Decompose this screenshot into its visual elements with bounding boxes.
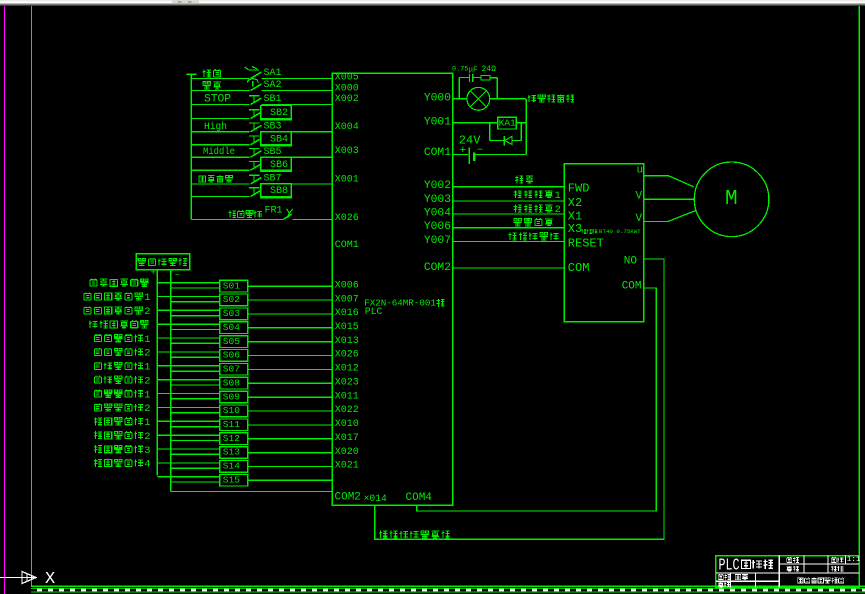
- svg-text:X000: X000: [335, 84, 359, 95]
- wire V to motor: [644, 198, 695, 200]
- sensor S12 output wire: [248, 438, 333, 440]
- svg-text:X: X: [45, 570, 55, 589]
- sensor S04 output wire: [248, 327, 333, 329]
- svg-text:1: 1: [144, 334, 150, 346]
- sensor S08 - wire: [171, 384, 220, 386]
- wire U to motor: [644, 176, 694, 187]
- title school 黑龙江工程学院: [798, 578, 803, 583]
- svg-text:SA1: SA1: [264, 68, 282, 79]
- capacitor C1 0.75uF: [459, 77, 469, 79]
- battery 24V: [468, 147, 470, 164]
- svg-text:Y002: Y002: [424, 180, 451, 192]
- svg-text:2: 2: [555, 204, 561, 216]
- sensor block S08: [220, 377, 248, 389]
- sensor S15 - wire: [171, 481, 220, 483]
- sensor label 防撞传感器2: [94, 403, 101, 411]
- frame left border: [31, 6, 33, 586]
- wire W to motor: [644, 211, 696, 222]
- svg-text:2: 2: [144, 348, 150, 360]
- PLC FX2N-64MR box: [332, 73, 452, 505]
- title cell 工艺: [735, 575, 741, 580]
- switch SB4 wire: [191, 144, 249, 146]
- title cell 图号: [831, 566, 837, 572]
- sensor S09 - wire: [171, 398, 220, 400]
- svg-text:1: 1: [144, 362, 150, 374]
- svg-text:Y003: Y003: [424, 194, 451, 206]
- sensor block S14: [220, 461, 248, 473]
- sensor S08 + wire: [157, 379, 220, 381]
- wire COM1 to battery: [453, 154, 468, 156]
- toolbar bottom strip: [0, 0, 865, 2]
- frame bottom border: [31, 585, 865, 587]
- wire label 速度设定1: [514, 190, 522, 198]
- sensor block S09: [220, 391, 248, 403]
- svg-text:X002: X002: [335, 94, 359, 105]
- wire label 直流制动: [513, 219, 521, 226]
- sensor block S03: [220, 308, 248, 320]
- svg-text:COM2: COM2: [424, 262, 451, 274]
- svg-text:Y000: Y000: [424, 92, 451, 104]
- svg-text:BT40 0.75KWT: BT40 0.75KWT: [599, 228, 641, 235]
- switch SB4 designator box: [261, 132, 292, 146]
- wire PLC to inverter X3: [453, 227, 565, 229]
- switch SB3 contact: [251, 125, 262, 132]
- svg-text:COM2: COM2: [335, 491, 361, 503]
- switch SB6 wire: [191, 169, 249, 171]
- svg-text:24Ω: 24Ω: [482, 65, 497, 74]
- sensor label 红外传感器4: [94, 459, 102, 467]
- svg-text:×014: ×014: [364, 493, 387, 504]
- svg-text:2: 2: [144, 375, 150, 387]
- svg-text:+: +: [460, 145, 467, 157]
- switch SA2 contact: [251, 84, 262, 91]
- sensor label 防夹传感器1: [94, 334, 101, 342]
- svg-text:PLC: PLC: [719, 556, 740, 575]
- svg-text:X020: X020: [335, 447, 359, 458]
- sensor block S10: [220, 405, 248, 417]
- svg-text:S14: S14: [223, 461, 240, 472]
- sensor S07 + wire: [157, 365, 220, 367]
- svg-text:X007: X007: [335, 294, 359, 305]
- wire lamp to node: [490, 98, 527, 100]
- sensor block S04: [220, 322, 248, 334]
- sensor S13 + wire: [157, 448, 220, 450]
- svg-text:Y007: Y007: [424, 235, 451, 247]
- sensor S11 - wire: [171, 426, 220, 428]
- svg-text:S04: S04: [223, 322, 240, 333]
- svg-text:S08: S08: [223, 377, 240, 388]
- svg-text:X016: X016: [335, 308, 359, 319]
- left magenta guide line: [4, 6, 6, 594]
- label 热继电器: [228, 211, 236, 218]
- switch SB6 designator box: [261, 157, 292, 171]
- sensor S09 output wire: [248, 396, 333, 398]
- svg-text:S03: S03: [223, 308, 240, 319]
- svg-text:1:1: 1:1: [847, 556, 861, 564]
- sensor label 防撞传感器1: [94, 389, 101, 397]
- svg-text:High: High: [204, 121, 227, 133]
- svg-text:STOP: STOP: [204, 94, 231, 106]
- switch SB7 contact: [251, 178, 262, 185]
- wire Y000 to lamp: [453, 98, 467, 100]
- sensor - bus: [170, 269, 172, 491]
- sensor S11 + wire: [157, 420, 220, 422]
- wire PLC to inverter X1: [453, 213, 565, 215]
- sensor S12 - wire: [171, 439, 220, 441]
- sensor label 防磁传感器1: [94, 362, 101, 370]
- svg-text:S02: S02: [223, 294, 240, 305]
- svg-text:X011: X011: [335, 391, 359, 402]
- switch SB2 contact: [251, 112, 262, 119]
- svg-text:PLC: PLC: [365, 306, 383, 317]
- title cell 制图: [718, 574, 723, 579]
- sensor block S11: [220, 419, 248, 431]
- wire cap to resistor: [473, 77, 481, 79]
- svg-text:3: 3: [144, 445, 150, 457]
- label 残疾按钮: [199, 176, 206, 182]
- sensor label 红外传感器1: [94, 417, 102, 425]
- title block outer frame: [716, 556, 859, 588]
- svg-text:RESET: RESET: [568, 237, 604, 251]
- svg-text:V: V: [636, 213, 643, 225]
- svg-text:SA2: SA2: [264, 80, 282, 91]
- switch SB6 contact: [251, 164, 262, 171]
- resistor R1 24ohm: [481, 76, 490, 80]
- inverter small type label: [581, 229, 586, 233]
- lamp PL1 alarm indicator: [467, 87, 490, 110]
- svg-text:SB2: SB2: [270, 108, 288, 119]
- svg-text:S11: S11: [223, 419, 240, 430]
- svg-text:COM1: COM1: [335, 240, 359, 251]
- switch SB4 join wire: [290, 131, 292, 133]
- sensor label 防磁传感器2: [94, 376, 101, 384]
- svg-text:S05: S05: [223, 336, 240, 347]
- sensor S07 output wire: [248, 368, 333, 370]
- wire label 速度设定2: [514, 205, 522, 213]
- sensor label 防夹接近开关2: [84, 306, 91, 314]
- svg-text:X026: X026: [335, 350, 359, 361]
- svg-text:1: 1: [555, 190, 561, 202]
- wire PLC to inverter FWD: [453, 186, 565, 188]
- wire PLC to inverter RESET: [453, 241, 565, 243]
- switch SB8 join wire: [290, 183, 292, 186]
- sensor S06 - wire: [171, 356, 220, 358]
- UCS icon X axis: [0, 577, 35, 579]
- sensor S14 - wire: [171, 467, 220, 469]
- svg-text:X001: X001: [335, 175, 359, 186]
- sensor + bus: [156, 269, 158, 475]
- svg-text:2: 2: [144, 403, 150, 415]
- svg-text:S15: S15: [223, 475, 240, 486]
- svg-text:S13: S13: [223, 447, 240, 458]
- label 变频器报警输出: [379, 531, 387, 538]
- svg-text:μF: μF: [469, 66, 479, 74]
- svg-text:X2: X2: [568, 196, 582, 210]
- sensor label 制动接近开关: [90, 278, 97, 286]
- sensor S06 output wire: [248, 355, 333, 357]
- sensor S15 + wire: [157, 476, 220, 478]
- sensor S02 + wire: [157, 295, 220, 297]
- svg-text:X015: X015: [335, 322, 359, 333]
- svg-text:1: 1: [144, 417, 150, 429]
- sensor S05 + wire: [157, 337, 220, 339]
- frame right border: [858, 6, 860, 588]
- switch SB3 wire: [191, 131, 249, 133]
- sensor S03 + wire: [157, 309, 220, 311]
- switch SB6 join wire: [290, 156, 292, 158]
- svg-text:SB5: SB5: [264, 147, 282, 158]
- switch SB8 wire: [191, 196, 249, 198]
- svg-text:Middle: Middle: [203, 146, 235, 158]
- svg-text:X004: X004: [335, 122, 359, 133]
- svg-text:X023: X023: [335, 378, 359, 389]
- svg-text:COM: COM: [568, 261, 590, 275]
- svg-text:Y006: Y006: [424, 221, 451, 233]
- svg-text:X3: X3: [568, 222, 582, 236]
- frame bottom dashed band: [31, 588, 865, 593]
- svg-text:X010: X010: [335, 419, 359, 430]
- switch SA1 wire: [191, 78, 249, 80]
- sensor block S13: [220, 447, 248, 459]
- switch SB4 contact: [251, 138, 262, 145]
- switch SB1 wire: [191, 104, 249, 106]
- label 报警指示灯: [528, 95, 536, 102]
- wire battery to node: [474, 154, 526, 156]
- svg-text:2: 2: [144, 431, 150, 443]
- sensor block S01: [220, 280, 248, 292]
- svg-text:u: u: [637, 164, 644, 176]
- sensor block S07: [220, 363, 248, 375]
- diode D1: [503, 136, 505, 146]
- svg-text:S12: S12: [223, 433, 240, 444]
- sensor S05 - wire: [171, 342, 220, 344]
- thermal relay FR1 contact: [283, 214, 292, 219]
- motor M: [694, 162, 769, 237]
- relay coil KA1: [498, 117, 517, 129]
- switch SB2 wire: [191, 118, 249, 120]
- svg-text:SB8: SB8: [270, 186, 288, 197]
- svg-text:2: 2: [144, 306, 150, 318]
- sensor S01 - wire: [171, 287, 220, 289]
- sensor - bus to COM2 wire: [171, 490, 333, 492]
- svg-text:V: V: [636, 191, 643, 203]
- wire PLC to inverter COM: [453, 267, 565, 269]
- svg-text:NO: NO: [624, 255, 638, 267]
- switch SB2 join wire: [290, 105, 292, 106]
- switch SA2 wire: [191, 90, 249, 92]
- sensor S10 output wire: [248, 410, 333, 412]
- sensor label 红外传感器3: [94, 445, 102, 453]
- sensor block S06: [220, 350, 248, 362]
- svg-text:X013: X013: [335, 336, 359, 347]
- sensor S03 - wire: [171, 315, 220, 317]
- svg-text:X005: X005: [335, 73, 359, 84]
- sensor S07 - wire: [171, 370, 220, 372]
- svg-text:X022: X022: [335, 405, 359, 416]
- wire Y001 to relay: [453, 122, 498, 124]
- svg-text:S09: S09: [223, 391, 240, 402]
- wire resistor to branch end: [490, 77, 497, 79]
- svg-text:COM1: COM1: [424, 147, 451, 159]
- sensor S02 - wire: [171, 301, 220, 303]
- svg-text:SB1: SB1: [264, 94, 282, 105]
- switch bus top tick: [187, 73, 197, 75]
- svg-text:X003: X003: [335, 146, 359, 157]
- sensor S03 output wire: [248, 313, 333, 315]
- sensor S13 output wire: [248, 452, 333, 454]
- sensor S01 output wire: [248, 285, 333, 287]
- svg-text:4: 4: [144, 459, 150, 471]
- svg-text:S06: S06: [223, 350, 240, 361]
- RC branch riser: [458, 78, 460, 99]
- switch SB5 wire: [191, 156, 249, 158]
- switch SB1 contact: [251, 98, 262, 105]
- label 钥匙: [202, 70, 210, 78]
- sensor block S05: [220, 336, 248, 348]
- sensor S09 + wire: [157, 393, 220, 395]
- svg-text:0.75: 0.75: [452, 66, 468, 74]
- svg-text:FR1: FR1: [265, 206, 283, 217]
- wire label 变频器复位: [508, 233, 516, 240]
- sensor S01 + wire: [157, 282, 220, 284]
- switch SA1 contact: [251, 72, 262, 79]
- svg-text:X026: X026: [335, 213, 359, 224]
- svg-text:KA1: KA1: [499, 118, 516, 129]
- switch SB8 contact: [251, 190, 262, 197]
- svg-text:+: +: [151, 268, 156, 278]
- sensor label 锁门接近开关: [89, 321, 98, 328]
- svg-text:X017: X017: [335, 433, 359, 444]
- sensor S02 output wire: [248, 299, 333, 301]
- sensor S05 output wire: [248, 341, 333, 343]
- title cell 审核: [718, 582, 723, 587]
- sensor label 防夹接近开关1: [84, 292, 91, 300]
- title cell 比例: [831, 557, 836, 562]
- wire COM return to COM4: [417, 288, 657, 511]
- sensor S06 + wire: [157, 351, 220, 353]
- sensor S15 output wire: [248, 479, 333, 481]
- wire label 启停: [515, 176, 523, 184]
- svg-text:SB3: SB3: [264, 122, 282, 133]
- node vertical right of lamp: [525, 99, 527, 155]
- svg-text:S07: S07: [223, 364, 240, 375]
- svg-text:S01: S01: [223, 280, 240, 291]
- svg-text:–: –: [175, 270, 180, 280]
- svg-text:X021: X021: [335, 461, 359, 472]
- svg-text:SB6: SB6: [270, 160, 288, 171]
- sensor block S02: [220, 294, 248, 306]
- sensor S04 - wire: [171, 329, 220, 331]
- svg-text:COM: COM: [622, 280, 642, 292]
- sensor block S12: [220, 433, 248, 445]
- svg-text:1: 1: [144, 292, 150, 304]
- sensor S14 + wire: [157, 462, 220, 464]
- sensor label 防夹传感器2: [94, 348, 101, 356]
- sensor S10 - wire: [171, 412, 220, 414]
- label 急停: [202, 82, 210, 89]
- title cell 审图: [787, 566, 792, 571]
- switch SB5 contact: [251, 151, 262, 158]
- svg-text:S10: S10: [223, 405, 240, 416]
- wire PLC to inverter X2: [453, 200, 565, 202]
- svg-text:1: 1: [144, 389, 150, 401]
- sensor S04 + wire: [157, 323, 220, 325]
- svg-text:X006: X006: [335, 280, 359, 291]
- sensor S10 + wire: [157, 406, 220, 408]
- switch SB8 designator box: [261, 184, 292, 198]
- switch SB2 designator box: [261, 106, 292, 120]
- svg-text:Y001: Y001: [424, 116, 451, 128]
- sensor block S15: [220, 474, 248, 486]
- svg-text:SB4: SB4: [270, 135, 288, 146]
- wire NO return to x014: [375, 259, 664, 539]
- sensor S14 output wire: [248, 466, 333, 468]
- switch bus vertical: [190, 74, 192, 219]
- thermal relay FR1 wire: [191, 219, 282, 221]
- inverter BT40 box: [564, 164, 643, 322]
- sensor S13 - wire: [171, 453, 220, 455]
- svg-text:COM4: COM4: [406, 492, 433, 504]
- diode branch down: [489, 123, 491, 141]
- svg-text:X012: X012: [335, 364, 359, 375]
- svg-text:M: M: [725, 188, 738, 211]
- sensor S08 output wire: [248, 382, 333, 384]
- sensor power supply box 传感器电源: [136, 254, 190, 270]
- sensor S11 output wire: [248, 424, 333, 426]
- sensor S12 + wire: [157, 434, 220, 436]
- svg-text:Y004: Y004: [424, 208, 451, 220]
- sensor label 红外传感器2: [94, 431, 102, 439]
- title cell 描图: [787, 557, 792, 562]
- switch SB7 wire: [191, 183, 249, 185]
- svg-text:FWD: FWD: [568, 182, 590, 196]
- title block grid: [716, 572, 859, 574]
